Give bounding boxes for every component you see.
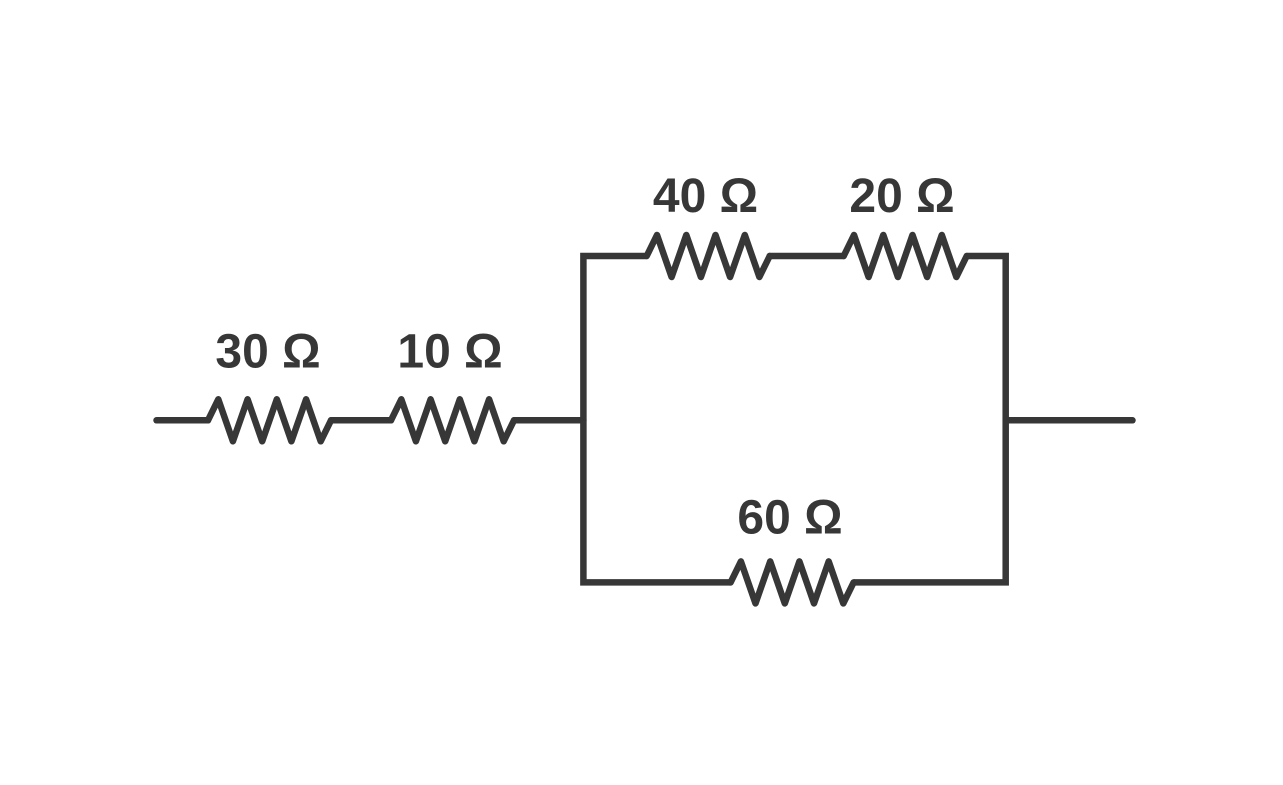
svg-text:10 Ω: 10 Ω (397, 326, 502, 379)
wire: right output lead (1006, 417, 1133, 424)
svg-text:20 Ω: 20 Ω (849, 170, 954, 223)
wire: bottom-right corner up to node B (854, 420, 1006, 582)
wire: between R1 and R2 (331, 417, 391, 424)
svg-text:40 Ω: 40 Ω (653, 170, 758, 223)
wire: left vertical down to bottom branch (583, 420, 730, 582)
node A: left junction / wire: left vertical branch (583, 256, 646, 420)
resistor R3 40Ω (top branch) (647, 235, 770, 277)
resistor R2 10Ω (391, 399, 514, 441)
wire: R2 to node A (left junction of parallel block) (514, 417, 583, 424)
resistor R5 60Ω (bottom branch) (731, 561, 854, 603)
resistor R1 30Ω (208, 399, 331, 441)
wire: between R3 and R4 (top branch) (770, 253, 844, 260)
svg-text:60 Ω: 60 Ω (737, 492, 842, 545)
wire: top-right corner down to node B (967, 256, 1006, 420)
resistor R4 20Ω (top branch) (844, 235, 967, 277)
wire: left input lead (157, 417, 209, 424)
svg-text:30 Ω: 30 Ω (215, 326, 320, 379)
